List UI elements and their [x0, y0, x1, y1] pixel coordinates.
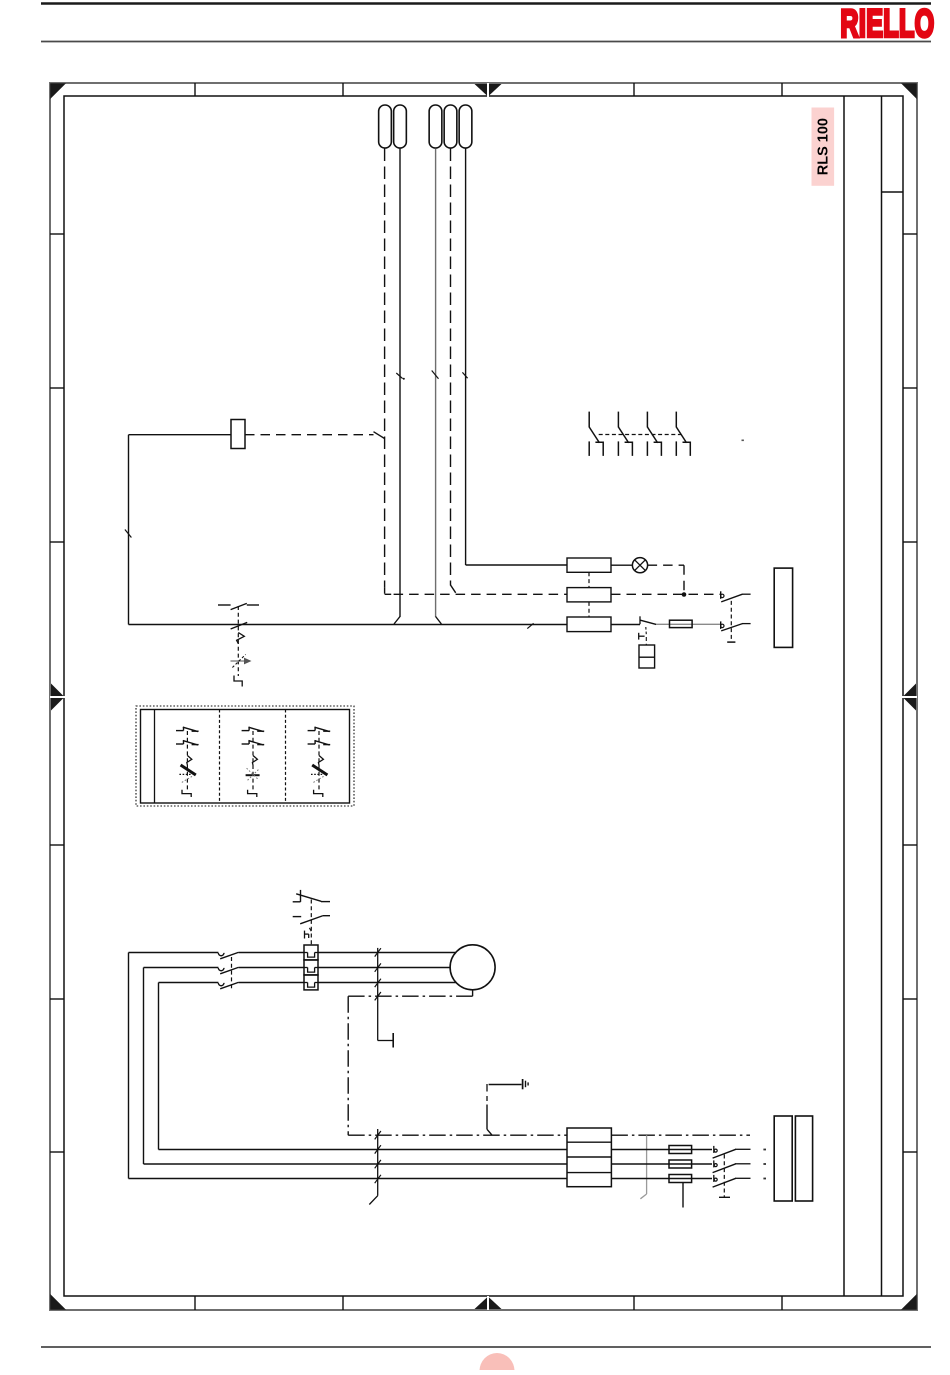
relay contact 1 — [588, 412, 590, 428]
wire phase3 to overload — [239, 982, 305, 984]
wire w3 foot — [436, 617, 442, 625]
wire dashed to w1 — [245, 434, 374, 436]
legend symbol overload trip 2 — [242, 730, 250, 732]
frame scale tick left 3 — [50, 541, 64, 543]
svg-text:RIELLO: RIELLO — [840, 1, 934, 45]
contactor KM1 contact 1 — [218, 953, 224, 956]
fuse F4 — [669, 1160, 692, 1168]
frame scale tick top 1 — [194, 83, 196, 96]
wire stub node 2 — [763, 1163, 766, 1165]
junction node — [682, 592, 687, 597]
wire dash-dot right — [611, 1134, 750, 1136]
legend symbol overload trip 3 — [308, 730, 316, 732]
wire w5 crossing tick — [462, 372, 467, 378]
wire phase3 riser — [158, 983, 160, 1150]
frame scale tick left 4 — [50, 844, 64, 846]
wire w1 corner — [384, 587, 386, 593]
terminal sleeve 1 — [379, 105, 392, 148]
wire phase3 to motor — [318, 982, 456, 984]
wire left loop crossing tick — [125, 530, 131, 538]
wire phase2 to motor — [318, 967, 451, 969]
switch Q1 blade — [640, 620, 656, 624]
wire phase3 to contactor — [159, 982, 219, 984]
frame scale tick left 2 — [50, 387, 64, 389]
frame scale tick top 4 — [781, 83, 783, 96]
stray mark — [742, 440, 744, 442]
motor M1 — [450, 945, 495, 990]
switch S1 release arrow — [231, 660, 245, 662]
contact pair link — [730, 601, 732, 640]
frame corner mark top-right — [901, 83, 917, 99]
wire row4 horizontal — [129, 1178, 568, 1180]
contactor KM1 contact 3 — [218, 983, 224, 986]
frame scale tick bottom 2 — [342, 1296, 344, 1310]
relay contact 2 — [617, 412, 619, 428]
wire w3 crossing tick — [432, 371, 439, 379]
overload F2 trip contact upper — [293, 901, 301, 903]
terminal strip XT4 — [795, 1116, 812, 1201]
cable marker 1 — [377, 948, 379, 1041]
legend cell divider 1 — [219, 710, 221, 804]
model label RLS 100 — [812, 108, 835, 186]
legend symbol overload trip 1 — [176, 730, 184, 732]
frame centre mark left — [51, 684, 65, 711]
wire phase1 riser — [128, 953, 130, 1179]
wire w5 horizontal — [466, 564, 567, 566]
wire main bottom line — [129, 624, 568, 626]
legend box dotted border — [136, 706, 354, 806]
overload F2 trip link — [310, 900, 312, 945]
contact C2 lower — [720, 621, 722, 629]
contacts link — [723, 1155, 725, 1198]
earth terminal PE2 — [489, 1084, 522, 1086]
wire w4 corner — [451, 585, 456, 593]
switch S1 latch — [234, 676, 242, 687]
wire w1 dashed vertical — [384, 149, 386, 588]
legend box left column — [154, 710, 156, 804]
terminal block XT2 — [567, 1128, 611, 1187]
terminal sleeve 4 — [444, 105, 457, 148]
page footer rule — [41, 1346, 931, 1348]
wire w3 grey vertical — [435, 149, 437, 618]
legend cell divider 2 — [285, 710, 287, 804]
frame scale tick left 1 — [50, 233, 64, 235]
frame scale tick right 3 — [903, 541, 917, 543]
overload F2 element 3 — [304, 975, 318, 990]
page number blob — [480, 1353, 515, 1375]
frame scale tick bottom 1 — [194, 1296, 196, 1310]
frame scale tick bottom 3 — [633, 1296, 635, 1310]
frame centre mark bottom — [475, 1297, 502, 1310]
cable marker 2 — [377, 1129, 379, 1196]
legend box frame — [141, 710, 350, 804]
terminal strip XT3 — [774, 1116, 792, 1201]
terminal sleeve 3 — [429, 105, 442, 148]
frame corner mark bottom-left — [50, 1294, 66, 1310]
frame scale tick top 3 — [633, 83, 635, 96]
cable marker 3 grey — [646, 1135, 648, 1194]
wire stub node 3 — [763, 1178, 766, 1180]
terminal sleeve 2 — [394, 105, 407, 148]
wire B3 right — [611, 624, 640, 626]
fuse F1 — [670, 620, 693, 627]
coil box B3 — [567, 617, 611, 632]
page header top rule — [41, 2, 931, 4]
wire lamp dashed — [648, 564, 684, 566]
frame scale tick top 2 — [342, 83, 344, 96]
wire row4 to fuse — [611, 1178, 712, 1180]
coil link B1-B2 — [588, 572, 590, 587]
wire left loop top — [129, 434, 232, 436]
fuse F3 — [669, 1146, 692, 1154]
wire lamp drop dashed — [683, 565, 685, 594]
lamp H1 — [632, 558, 647, 573]
frame scale tick right 5 — [903, 998, 917, 1000]
terminal sleeve 5 — [459, 105, 472, 148]
wire row2 horizontal — [159, 1149, 568, 1151]
contactor KM1 contact 2 — [218, 968, 224, 971]
title column divider line 1 — [843, 96, 845, 1296]
relay contact 3 — [646, 412, 648, 428]
component K1 (plug element) — [231, 420, 245, 449]
wire phase1 to motor — [318, 952, 456, 954]
wire earth dash-dot to terminals — [348, 1134, 567, 1136]
frame scale tick right 1 — [903, 233, 917, 235]
overload F2 trip latch — [304, 931, 306, 939]
wire w2 foot — [394, 617, 400, 625]
wire through fuse — [656, 623, 720, 625]
frame scale tick right 4 — [903, 844, 917, 846]
frame scale tick bottom 4 — [781, 1296, 783, 1310]
switch S1 auxiliary contact — [218, 604, 231, 606]
frame centre mark top — [475, 84, 502, 97]
wire phase1 to overload — [239, 952, 305, 954]
wire earth dash-dot riser — [347, 996, 349, 1135]
control box A1 — [639, 645, 655, 668]
title column divider line 2 — [881, 96, 883, 1296]
wire w4 dashed vertical — [450, 149, 452, 586]
wire w5 solid vertical — [465, 149, 467, 566]
overload F2 element 1 — [304, 945, 318, 960]
inner frame border — [64, 96, 903, 1296]
contact C5 — [713, 1175, 715, 1182]
overload F2 element 2 — [304, 960, 318, 975]
wire w2 solid vertical — [399, 149, 401, 618]
wire stub node 1 — [763, 1149, 766, 1151]
overload F2 trip contact lower — [293, 916, 302, 918]
contactor KM1 link — [231, 957, 233, 991]
wire phase2 to contactor — [144, 967, 219, 969]
wire row3 to fuse — [611, 1163, 712, 1165]
svg-text:RLS 100: RLS 100 — [816, 118, 832, 175]
wire left loop vertical — [128, 435, 130, 625]
contact C3 — [713, 1146, 715, 1153]
fuse F5 — [669, 1175, 692, 1183]
wire dashed bus — [394, 593, 567, 595]
title column cell divider — [882, 191, 904, 193]
wire earth dash-dot horizontal — [348, 995, 472, 997]
wire motor earth drop — [472, 990, 474, 997]
contact C1 upper — [720, 591, 722, 599]
contact C4 — [713, 1160, 715, 1167]
wire B1 to lamp — [611, 564, 632, 566]
frame scale tick left 5 — [50, 998, 64, 1000]
earth terminal PE1 — [378, 1040, 394, 1042]
wire phase1 to contactor — [129, 952, 219, 954]
switch Q1 tick — [639, 616, 641, 624]
relay contact 4 — [675, 412, 677, 428]
frame corner mark top-left — [50, 83, 66, 99]
frame corner mark bottom-right — [901, 1294, 917, 1310]
coil link B2-B3 — [588, 602, 590, 617]
wire phase2 riser — [143, 968, 145, 1165]
frame scale tick right 2 — [903, 387, 917, 389]
wire B2 dashed right — [611, 593, 720, 595]
switch S1 spring — [237, 633, 245, 644]
frame scale tick right 6 — [903, 1151, 917, 1153]
switch Q1 link — [645, 627, 648, 635]
wire row2 to fuse — [611, 1149, 712, 1151]
wire main line crossing tick — [527, 623, 533, 628]
page header bottom rule — [41, 41, 931, 43]
wire row3 horizontal — [144, 1163, 568, 1165]
relay contacts mechanical link — [599, 434, 681, 436]
wire fuse F5 drop — [682, 1183, 684, 1208]
coil box B2 — [567, 588, 611, 602]
terminal strip XT1 — [774, 568, 792, 647]
frame centre mark right — [903, 684, 917, 711]
switch S1 mechanical link — [237, 606, 239, 676]
wire phase2 to overload — [239, 967, 305, 969]
coil box B1 — [567, 558, 611, 572]
frame scale tick left 6 — [50, 1151, 64, 1153]
switch S1 main contact blade — [231, 622, 248, 629]
wire w2 crossing tick — [396, 373, 402, 379]
